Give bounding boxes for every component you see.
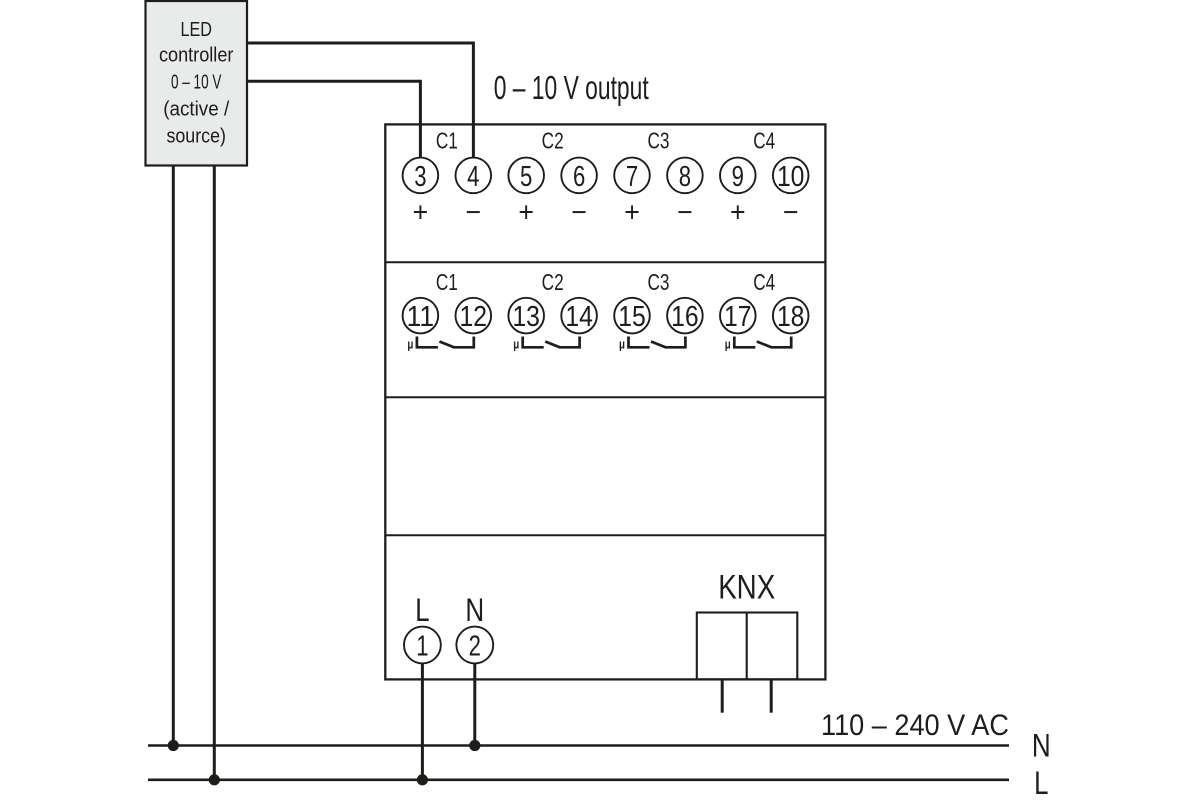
label C2 (output row)	[542, 128, 564, 154]
terminal 9	[720, 158, 756, 194]
svg-text:L: L	[415, 592, 429, 628]
label C4 (output row)	[753, 128, 775, 154]
svg-text:C1: C1	[436, 269, 458, 295]
svg-text:18: 18	[777, 301, 805, 333]
svg-text:−: −	[466, 197, 482, 228]
wire: terminal 2 to N line	[473, 663, 476, 745]
N power line	[148, 744, 1009, 747]
terminal 2	[456, 627, 493, 664]
svg-text:C4: C4	[753, 269, 775, 295]
svg-text:L: L	[1034, 765, 1048, 800]
svg-text:10: 10	[777, 161, 805, 193]
L power line	[148, 778, 1009, 781]
junction: terminal 2 wire on N line	[469, 740, 480, 751]
relay contact C2	[523, 337, 580, 348]
terminal 8	[667, 158, 703, 194]
KNX bus pin left	[721, 679, 724, 712]
label C3 (output row)	[647, 128, 669, 154]
terminal 16	[667, 298, 703, 334]
svg-text:6: 6	[573, 161, 585, 193]
label mu (contact C3)	[619, 337, 625, 352]
polarity plus terminal 9	[730, 197, 746, 228]
svg-text:C2: C2	[542, 269, 564, 295]
svg-text:−: −	[783, 197, 799, 228]
polarity minus terminal 8	[677, 197, 693, 228]
KNX bus connector block	[697, 613, 798, 680]
svg-text:7: 7	[626, 161, 638, 193]
polarity plus terminal 7	[624, 197, 640, 228]
terminal 1	[404, 627, 441, 664]
svg-text:16: 16	[671, 301, 699, 333]
wire: LED controller to N line	[172, 166, 175, 746]
terminal 17	[720, 298, 756, 334]
label mu (contact C1)	[407, 337, 413, 352]
label: 0-10 V output	[494, 69, 649, 106]
svg-text:C4: C4	[753, 128, 775, 154]
label mu (contact C4)	[725, 337, 731, 352]
polarity minus terminal 4	[466, 197, 482, 228]
svg-text:5: 5	[520, 161, 532, 193]
svg-text:9: 9	[732, 161, 744, 193]
polarity minus terminal 10	[783, 197, 799, 228]
dimming actuator main box	[385, 124, 825, 679]
label N (terminal 2)	[465, 592, 484, 628]
svg-text:source): source)	[166, 124, 226, 147]
wire: terminal 1 to L line	[421, 663, 424, 779]
relay contact C3	[629, 337, 686, 348]
svg-text:+: +	[518, 197, 534, 228]
divider line 3	[385, 534, 825, 536]
terminal 18	[773, 298, 809, 334]
LED controller box	[146, 1, 248, 166]
divider line 2	[385, 396, 825, 398]
svg-text:+: +	[730, 197, 746, 228]
label KNX	[718, 569, 775, 607]
svg-text:−: −	[571, 197, 587, 228]
svg-text:N: N	[465, 592, 484, 628]
divider line 1	[385, 261, 825, 263]
svg-text:14: 14	[565, 301, 593, 333]
LED controller label	[159, 18, 234, 147]
terminal 6	[561, 158, 597, 194]
label: 110-240 V AC	[821, 709, 1009, 742]
svg-text:LED: LED	[180, 18, 212, 41]
svg-text:C3: C3	[647, 269, 669, 295]
svg-text:+: +	[624, 197, 640, 228]
svg-text:C2: C2	[542, 128, 564, 154]
terminal 13	[508, 298, 544, 334]
svg-text:0 – 10 V: 0 – 10 V	[171, 70, 222, 93]
label C3 (load row)	[647, 269, 669, 295]
svg-text:N: N	[1032, 728, 1051, 764]
label C1 (output row)	[436, 128, 458, 154]
svg-text:(active /: (active /	[163, 97, 229, 120]
terminal 5	[508, 158, 544, 194]
svg-text:μ: μ	[513, 337, 519, 352]
terminal 4	[456, 158, 492, 194]
terminal 7	[614, 158, 650, 194]
polarity plus terminal 3	[413, 197, 429, 228]
svg-text:3: 3	[414, 161, 426, 193]
junction: terminal 1 wire on L line	[417, 774, 428, 785]
wire: LED controller plus to terminal 3	[247, 81, 420, 158]
label C4 (load row)	[753, 269, 775, 295]
svg-text:μ: μ	[407, 337, 413, 352]
svg-text:μ: μ	[725, 337, 731, 352]
relay contact C1	[417, 337, 474, 348]
terminal 14	[561, 298, 597, 334]
label N (mains)	[1032, 728, 1051, 764]
label C2 (load row)	[542, 269, 564, 295]
svg-text:110 – 240 V AC: 110 – 240 V AC	[821, 709, 1009, 742]
svg-text:17: 17	[724, 301, 752, 333]
svg-text:controller: controller	[159, 43, 234, 66]
svg-text:2: 2	[469, 631, 481, 663]
svg-text:+: +	[413, 197, 429, 228]
svg-text:C1: C1	[436, 128, 458, 154]
junction: LED controller wire on N line	[168, 740, 179, 751]
svg-text:12: 12	[460, 301, 488, 333]
polarity minus terminal 6	[571, 197, 587, 228]
svg-text:C3: C3	[647, 128, 669, 154]
label L (terminal 1)	[415, 592, 429, 628]
label C1 (load row)	[436, 269, 458, 295]
svg-text:4: 4	[467, 161, 479, 193]
relay contact C4	[734, 337, 791, 348]
terminal 12	[456, 298, 492, 334]
svg-text:1: 1	[416, 631, 428, 663]
svg-text:15: 15	[618, 301, 646, 333]
wire: LED controller minus to terminal 4	[247, 43, 473, 158]
terminal 10	[773, 158, 809, 194]
svg-text:13: 13	[512, 301, 540, 333]
terminal 11	[403, 298, 439, 334]
svg-text:11: 11	[407, 301, 435, 333]
KNX bus pin right	[770, 679, 773, 712]
svg-text:μ: μ	[619, 337, 625, 352]
polarity plus terminal 5	[518, 197, 534, 228]
label mu (contact C2)	[513, 337, 519, 352]
terminal 15	[614, 298, 650, 334]
svg-text:−: −	[677, 197, 693, 228]
svg-text:KNX: KNX	[718, 569, 775, 607]
wire: LED controller to L line	[213, 166, 216, 780]
svg-text:8: 8	[679, 161, 691, 193]
terminal 3	[403, 158, 439, 194]
label L (mains)	[1034, 765, 1048, 800]
junction: LED controller wire on L line	[209, 774, 220, 785]
svg-text:0 – 10 V output: 0 – 10 V output	[494, 69, 649, 106]
